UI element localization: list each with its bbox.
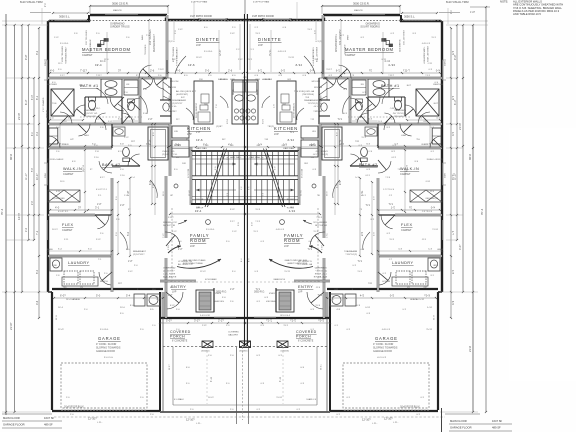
svg-text:THE MANUFACT: THE MANUFACT — [176, 46, 179, 64]
svg-text:CARPET: CARPET — [345, 53, 356, 57]
svg-text:15'-8?: 15'-8? — [189, 189, 191, 196]
wall: walk-in right lower — [111, 178, 114, 215]
svg-text:LIN.: LIN. — [174, 131, 178, 133]
svg-text:1647 SF: 1647 SF — [44, 416, 55, 420]
svg-text:9'-0 CLG: 9'-0 CLG — [60, 43, 69, 45]
dim 3050 right — [402, 12, 437, 14]
wall: bath1 right — [139, 78, 142, 124]
svg-text:CARPET: CARPET — [400, 172, 411, 176]
svg-text:11'-1?: 11'-1? — [169, 364, 171, 370]
svg-text:MAIN FLOOR: MAIN FLOOR — [3, 416, 20, 420]
wall: pantry right — [170, 78, 172, 124]
porch side line — [162, 318, 164, 412]
garage door dashed floor rect — [61, 363, 147, 408]
svg-text:CARPET: CARPET — [63, 172, 74, 176]
svg-text:LVP: LVP — [274, 132, 279, 136]
svg-text:PORCH: PORCH — [170, 335, 185, 339]
wall: walk-in bottom / flex top — [48, 214, 95, 217]
svg-text:2'-0?: 2'-0? — [127, 190, 130, 196]
svg-text:(W): (W) — [63, 287, 67, 289]
svg-text:6'-0 WALK: 6'-0 WALK — [174, 398, 184, 401]
svg-text:COVERED: COVERED — [296, 330, 317, 334]
door bath2 — [128, 154, 140, 166]
dim string below master bedroom — [50, 72, 243, 74]
wall: flex right — [111, 215, 114, 256]
svg-text:13R: 13R — [196, 207, 200, 209]
svg-text:16R UP: 16R UP — [196, 199, 204, 201]
wc toilet room — [128, 102, 135, 111]
linen closet — [172, 140, 189, 157]
svg-text:LB16X16: LB16X16 — [201, 351, 210, 353]
wall: stair bottom — [191, 203, 245, 205]
svg-text:MARVIN: MARVIN — [113, 9, 122, 12]
door master bedroom — [139, 65, 152, 78]
door hall — [166, 232, 180, 245]
wall: bath1 bottom / hall top — [48, 123, 140, 126]
dim string entry — [160, 322, 245, 324]
wall: laundry right — [111, 256, 114, 292]
svg-text:LVP: LVP — [284, 244, 289, 248]
svg-text:BREAKFAST: BREAKFAST — [133, 250, 147, 253]
svg-text:2'-8": 2'-8" — [230, 289, 235, 291]
svg-text:SINK: SINK — [230, 79, 236, 81]
svg-text:LVP: LVP — [172, 291, 177, 294]
svg-text:6'-0: 6'-0 — [36, 269, 39, 274]
svg-text:3'-6: 3'-6 — [227, 193, 229, 196]
svg-text:HALL: HALL — [84, 134, 90, 137]
svg-text:5'-0: 5'-0 — [205, 69, 210, 73]
party wall center — [244, 0, 246, 346]
svg-text:COVERED: COVERED — [228, 332, 239, 334]
svg-text:DISHWASH: DISHWASH — [168, 95, 171, 107]
svg-text:HALF RAIL: HALF RAIL — [196, 147, 208, 150]
ext line bottom right — [441, 408, 443, 432]
svg-text:6' CONCRETE: 6' CONCRETE — [298, 341, 314, 343]
svg-text:4'-6: 4'-6 — [36, 300, 39, 305]
svg-text:4'-0 3? 3'-1: 4'-0 3? 3'-1 — [58, 211, 69, 213]
svg-text:SHELVES: SHELVES — [214, 301, 224, 303]
wall: step up at master bedroom — [88, 15, 90, 21]
svg-text:16'-4 GARAGE: 16'-4 GARAGE — [66, 298, 81, 301]
svg-text:W.C.: W.C. — [96, 108, 101, 110]
wall: bath1 vanity back — [85, 96, 122, 98]
svg-text:GALLERY: GALLERY — [228, 334, 239, 337]
svg-text:CARPET: CARPET — [401, 228, 412, 232]
svg-text:2'-0: 2'-0 — [25, 227, 28, 232]
door hall-bath1 — [128, 98, 140, 110]
svg-text:10'-0?: 10'-0? — [208, 397, 214, 399]
svg-text:20'-0: 20'-0 — [120, 307, 126, 309]
svg-text:3050 S.L.: 3050 S.L. — [404, 15, 415, 19]
wall: entry top — [160, 280, 196, 283]
svg-text:GARAGE DOOR: GARAGE DOOR — [96, 350, 115, 353]
svg-text:46'-8: 46'-8 — [468, 154, 472, 160]
svg-text:7'-1: 7'-1 — [36, 230, 39, 235]
svg-text:9'-0 CLG: 9'-0 CLG — [206, 229, 215, 231]
powder wc enclosure — [160, 99, 171, 101]
entry coat closet — [196, 290, 214, 312]
ext line — [296, 2, 298, 20]
svg-text:GARAGE: GARAGE — [375, 336, 398, 341]
wall: entry side — [162, 292, 165, 318]
closet w.c. door arcs hall — [74, 105, 85, 116]
door flex — [97, 215, 109, 229]
svg-text:8'-1?: 8'-1? — [25, 99, 28, 105]
svg-text:6'-0?: 6'-0? — [60, 294, 66, 298]
wall: bath2 top — [140, 123, 170, 126]
svg-text:4'-0: 4'-0 — [55, 206, 60, 210]
svg-text:BATH #1: BATH #1 — [80, 84, 99, 88]
svg-text:13'-4: 13'-4 — [195, 209, 202, 213]
hall linen box left — [49, 128, 58, 144]
vertical dim string x130 flex — [129, 178, 131, 256]
powder toilet by pantry — [163, 103, 169, 111]
wall: exterior top-left w/ window — [49, 20, 90, 22]
svg-text:MIRROR: MIRROR — [47, 109, 49, 118]
svg-text:8x10 VISUAL TRIM: 8x10 VISUAL TRIM — [446, 0, 469, 4]
wall: flex bottom / laundry top — [48, 255, 112, 258]
porch post — [202, 341, 213, 348]
svg-text:10'-1?: 10'-1? — [52, 229, 59, 231]
vanity master bath — [101, 79, 122, 97]
svg-text:REFR: REFR — [233, 89, 235, 95]
kitchen counter at party wall — [232, 80, 247, 124]
svg-text:(2) 16"X11?: (2) 16"X11? — [133, 254, 145, 256]
svg-text:AND TABLE R602.10.5: AND TABLE R602.10.5 — [513, 12, 541, 16]
svg-text:12'-10?: 12'-10? — [88, 417, 97, 421]
svg-text:9'-2?: 9'-2? — [25, 54, 28, 60]
svg-text:MASTER BEDROOM: MASTER BEDROOM — [82, 47, 131, 52]
bath1 linen niche — [124, 80, 138, 95]
svg-text:LVP: LVP — [70, 139, 74, 141]
family dashed ceiling break — [168, 281, 243, 283]
corner post — [87, 19, 90, 22]
svg-text:MAIN FLOOR: MAIN FLOOR — [450, 419, 467, 423]
svg-text:2X6 TRUSSES: 2X6 TRUSSES — [86, 30, 88, 45]
porch slab left edge — [172, 347, 174, 405]
svg-text:16'x8' ROOF BULK: 16'x8' ROOF BULK — [400, 407, 420, 409]
ceiling fan master bedroom — [98, 39, 109, 47]
svg-text:L.P.L.: L.P.L. — [372, 423, 378, 425]
svg-text:9'-0 CLG: 9'-0 CLG — [204, 51, 213, 53]
dim string kitchen — [168, 146, 245, 148]
svg-text:BROOM: BROOM — [168, 87, 176, 89]
svg-text:3'-0: 3'-0 — [175, 143, 180, 147]
svg-text:13'-6: 13'-6 — [196, 138, 203, 142]
svg-text:MARVIN: MARVIN — [354, 9, 363, 12]
svg-text:ENTRY: ENTRY — [298, 285, 313, 289]
wall: garage front w/ overhead door — [52, 410, 160, 412]
shower master bath w/ X — [51, 89, 74, 116]
svg-text:TRUSSES: TRUSSES — [145, 44, 147, 55]
dim string flex — [50, 209, 112, 211]
leader swoosh arrows family room — [168, 246, 181, 253]
svg-text:2'-8": 2'-8" — [168, 295, 173, 297]
water heater — [147, 294, 160, 306]
svg-text:CARPET: CARPET — [82, 53, 93, 57]
svg-text:WALK-IN: WALK-IN — [63, 167, 82, 171]
svg-text:DINETTE: DINETTE — [196, 37, 220, 42]
svg-text:GIRDER TRUSS: GIRDER TRUSS — [110, 25, 130, 29]
svg-text:PANTRY: PANTRY — [168, 110, 177, 113]
svg-text:CARPET: CARPET — [62, 228, 73, 232]
dim 3050 left — [53, 12, 88, 14]
door walk-in — [99, 161, 112, 173]
wall: entry front w/ door+window — [160, 317, 245, 319]
smoke detector — [206, 220, 211, 225]
svg-text:2'-6: 2'-6 — [228, 69, 233, 73]
vertical dim string at x152 — [151, 124, 153, 204]
svg-text:LIN: LIN — [126, 84, 130, 86]
svg-text:23'-4?: 23'-4? — [58, 329, 65, 331]
svg-text:DETECTOR: DETECTOR — [163, 225, 175, 227]
mb center dim vertical — [106, 32, 108, 73]
svg-text:WALK-IN: WALK-IN — [400, 167, 419, 171]
svg-text:2'-8": 2'-8" — [97, 204, 102, 206]
svg-text:4'-0: 4'-0 — [36, 131, 39, 136]
svg-text:2'-8": 2'-8" — [120, 205, 125, 207]
porch front wall line — [160, 411, 245, 413]
svg-text:(2) 18"X11": (2) 18"X11" — [172, 103, 183, 105]
svg-text:5'-4: 5'-4 — [126, 294, 131, 298]
top dimension lines — [90, 5, 168, 7]
svg-text:UP: UP — [170, 195, 174, 197]
bottom dashed dim line — [54, 416, 445, 418]
kitchen island — [194, 81, 213, 124]
svg-text:GARAGE DOOR: GARAGE DOOR — [373, 350, 392, 353]
wall: garage left side — [51, 292, 53, 410]
svg-text:BALL ABOVE: BALL ABOVE — [163, 276, 177, 279]
svg-text:70'-4: 70'-4 — [480, 208, 484, 215]
svg-text:2'-8": 2'-8" — [128, 261, 133, 263]
tub bath2 — [148, 127, 168, 160]
svg-text:GARAGE: GARAGE — [98, 336, 121, 341]
svg-text:6'-0?: 6'-0? — [32, 94, 34, 100]
svg-text:2X4 TRUSSES: 2X4 TRUSSES — [150, 29, 152, 45]
svg-text:4'-11: 4'-11 — [210, 376, 213, 382]
svg-text:SHOWER: SHOWER — [47, 84, 57, 86]
svg-text:4'-0 3? 3'-1: 4'-0 3? 3'-1 — [96, 189, 108, 191]
dryer box — [80, 271, 94, 284]
wall: garage back — [52, 288, 163, 290]
svg-text:FLEX: FLEX — [401, 223, 413, 227]
svg-text:LAUNDRY: LAUNDRY — [68, 261, 90, 265]
svg-text:DN: DN — [176, 157, 180, 159]
svg-text:ROOM: ROOM — [284, 238, 300, 243]
dim line top-right — [439, 12, 460, 14]
svg-text:DW: DW — [204, 104, 208, 106]
svg-text:6' CONCRETE: 6' CONCRETE — [172, 341, 188, 343]
svg-text:3'-1: 3'-1 — [95, 206, 100, 210]
svg-text:OVERHEAD: OVERHEAD — [163, 267, 176, 270]
stair half rail — [191, 150, 245, 152]
svg-text:4'-0?: 4'-0? — [459, 244, 462, 250]
svg-text:11'-1?: 11'-1? — [25, 173, 28, 180]
svg-text:3'-1?: 3'-1? — [194, 319, 200, 323]
svg-text:21'-0?: 21'-0? — [9, 322, 13, 330]
svg-text:16'x8' ROOF BULK: 16'x8' ROOF BULK — [64, 407, 84, 409]
svg-text:489 SF: 489 SF — [44, 423, 53, 427]
svg-text:3050 R.O.: 3050 R.O. — [216, 291, 227, 294]
svg-text:4'x8' PATIO DOOR: 4'x8' PATIO DOOR — [190, 14, 212, 18]
svg-text:L.P.L.: L.P.L. — [196, 423, 202, 425]
svg-text:TOM MANUFACT: TOM MANUFACT — [65, 46, 68, 64]
svg-text:DISHWASHER: DISHWASHER — [172, 99, 187, 102]
staircase — [191, 149, 245, 208]
svg-text:LAUNDRY: LAUNDRY — [392, 261, 414, 265]
svg-text:21'-8: 21'-8 — [468, 346, 472, 352]
svg-text:7'-11?: 7'-11? — [96, 75, 102, 77]
porch slab front edge — [173, 404, 245, 406]
svg-text:3-0 DOOR: 3-0 DOOR — [200, 315, 210, 317]
hall dim line y146 — [48, 145, 170, 147]
vertical dim x118 — [117, 182, 119, 254]
svg-text:BENCH: BENCH — [100, 281, 108, 283]
svg-text:B.P.: B.P. — [181, 97, 185, 99]
pantry shelf strip hatched — [163, 78, 171, 100]
wall: master bedroom bottom — [48, 77, 167, 80]
svg-text:10R: 10R — [182, 163, 186, 165]
upper hall dim y128 — [113, 120, 138, 122]
svg-text:7'-11?: 7'-11? — [80, 69, 87, 73]
porch post dashes — [206, 347, 208, 404]
svg-text:KITCHEN: KITCHEN — [187, 126, 211, 131]
svg-text:BATH #2: BATH #2 — [359, 163, 378, 167]
laundry dim — [48, 250, 112, 252]
svg-text:(2) 2'-8: (2) 2'-8 — [83, 164, 85, 172]
wall: garage right side — [159, 292, 161, 411]
svg-text:NOTE:: NOTE: — [500, 0, 508, 4]
svg-text:19'-4: 19'-4 — [95, 63, 102, 67]
svg-text:1647 SF: 1647 SF — [492, 419, 503, 423]
svg-text:FLEX: FLEX — [62, 223, 74, 227]
svg-text:LP SIDING ON: LP SIDING ON — [178, 261, 192, 263]
svg-text:COVERED: COVERED — [170, 330, 191, 334]
svg-text:2'-8": 2'-8" — [148, 119, 153, 121]
toilet master bath — [88, 100, 95, 110]
stair direction arrows — [196, 163, 236, 165]
svg-text:BASE: BASE — [47, 248, 53, 251]
svg-text:(3) SHELVES: (3) SHELVES — [52, 198, 65, 200]
svg-text:2'-8": 2'-8" — [196, 132, 201, 134]
svg-text:DINETTE: DINETTE — [258, 37, 282, 42]
wall: bath2 right — [169, 124, 172, 147]
svg-text:2'-6: 2'-6 — [150, 69, 155, 73]
dim string garage top — [54, 297, 163, 299]
wall bath2-stair connector — [169, 147, 172, 176]
left unit geometry — [36, 14, 248, 416]
svg-text:BATH #2: BATH #2 — [102, 163, 121, 167]
svg-text:3050 R.O.: 3050 R.O. — [254, 291, 265, 294]
dashed: overhead girder truss — [48, 20, 245, 22]
svg-text:ALL SIDES TYP: ALL SIDES TYP — [178, 263, 194, 266]
right unit geometry (mirrored) — [242, 14, 454, 416]
svg-text:3050: 3050 — [45, 60, 47, 66]
svg-text:2'-8": 2'-8" — [178, 249, 183, 251]
svg-text:8'-1: 8'-1 — [36, 95, 39, 100]
svg-text:11'-1?: 11'-1? — [36, 173, 39, 180]
wall: master bedroom top w/ window — [90, 14, 167, 16]
wall: bath2 bottom — [112, 165, 140, 167]
svg-text:ROOM: ROOM — [190, 238, 206, 243]
center lines below porch — [236, 347, 238, 424]
overhead lvl hdr note bath hall — [80, 116, 142, 118]
svg-text:HALF WALL: HALF WALL — [230, 156, 242, 159]
bath1 leader curves — [118, 104, 130, 118]
svg-text:ENTRY: ENTRY — [171, 285, 186, 289]
entry door arc — [167, 292, 183, 309]
dim 2-0 near mb/dinette step — [173, 22, 175, 40]
svg-text:3000 CS E.R.: 3000 CS E.R. — [112, 2, 129, 6]
toilet bath2 — [123, 147, 130, 156]
svg-text:4'-11: 4'-11 — [279, 376, 282, 382]
washer box — [64, 271, 78, 284]
dim line top-left — [30, 12, 51, 14]
svg-text:21'-3?: 21'-3? — [17, 112, 21, 120]
svg-text:3050 S.L.: 3050 S.L. — [59, 15, 70, 19]
svg-text:OVERHEAD: OVERHEAD — [162, 150, 175, 153]
svg-text:LVP: LVP — [187, 132, 192, 136]
svg-text:13'-6: 13'-6 — [188, 63, 195, 67]
svg-text:2X12 STR: 2X12 STR — [188, 168, 190, 178]
dashed hall line — [171, 208, 173, 282]
laundry bench outline — [62, 277, 98, 286]
horiz dim y105 bath — [50, 119, 83, 121]
wall: dinette top w/ patio door — [167, 19, 245, 21]
svg-text:4"X1? FRAMED: 4"X1? FRAMED — [42, 97, 45, 112]
wall: jog to garage — [48, 291, 52, 293]
wall: exterior left side — [47, 21, 49, 292]
svg-text:FLUSH BRKFST: FLUSH BRKFST — [196, 102, 198, 118]
svg-text:5'-0: 5'-0 — [96, 294, 101, 298]
svg-text:489 SF: 489 SF — [492, 426, 501, 430]
door dinette-kitchen opening ticks — [166, 60, 168, 74]
svg-text:4'-0: 4'-0 — [50, 69, 55, 73]
svg-text:(D): (D) — [80, 287, 83, 289]
svg-text:4'x8 FH LP RAM: 4'x8 FH LP RAM — [253, 1, 269, 4]
svg-text:46'-8: 46'-8 — [9, 154, 13, 160]
svg-text:9'-2?: 9'-2? — [454, 54, 457, 60]
svg-text:9'-0 CLG: 9'-0 CLG — [104, 357, 113, 359]
svg-text:LVP: LVP — [190, 244, 195, 248]
svg-text:36 HIGH: 36 HIGH — [220, 79, 229, 81]
svg-text:3050: 3050 — [45, 172, 47, 178]
svg-text:12'-10?: 12'-10? — [362, 418, 371, 422]
left dimension lines — [5, 14, 7, 415]
svg-text:16'-4: 16'-4 — [58, 307, 64, 309]
svg-text:L.V.L. NOTE: L.V.L. NOTE — [163, 274, 176, 276]
top tick right dim — [470, 6, 490, 8]
vertical dim x155 — [154, 124, 156, 215]
svg-text:(SUPPORT): (SUPPORT) — [176, 94, 188, 96]
svg-text:13'-0?: 13'-0? — [196, 57, 202, 59]
dim 13-4 family — [170, 213, 245, 215]
svg-text:2'-1?: 2'-1? — [218, 319, 224, 323]
mb closet double doors — [143, 78, 153, 89]
svg-text:BATH #1: BATH #1 — [381, 84, 400, 88]
furnace — [134, 294, 145, 306]
svg-text:GARAGE FLOOR: GARAGE FLOOR — [3, 423, 25, 427]
svg-text:BROOM: BROOM — [170, 81, 178, 83]
svg-text:ALLOW QUICK SET: ALLOW QUICK SET — [176, 90, 197, 93]
wall: family-garage side — [165, 258, 168, 318]
svg-text:9'-2: 9'-2 — [36, 50, 39, 55]
svg-text:6'-8: 6'-8 — [149, 180, 152, 185]
svg-text:SINK: SINK — [52, 265, 57, 267]
svg-text:14'-5?: 14'-5? — [17, 212, 21, 220]
svg-text:5'-11?: 5'-11? — [168, 217, 174, 219]
top corner dim ticks — [41, 8, 43, 24]
